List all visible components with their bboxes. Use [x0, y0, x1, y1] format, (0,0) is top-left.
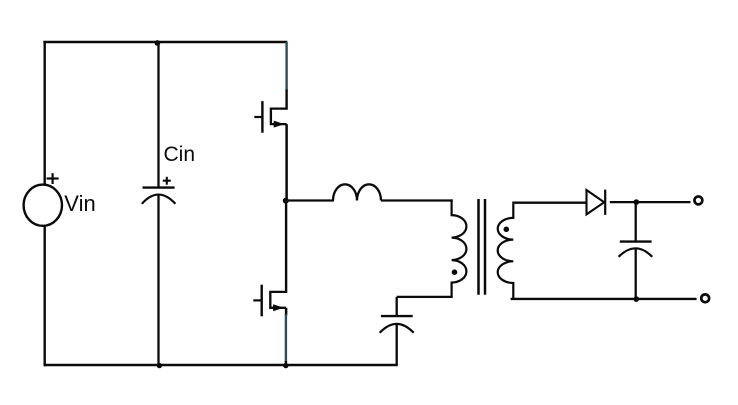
- inductor Lr: [333, 184, 381, 200]
- transistor Q2 (lower MOSFET): [253, 201, 286, 366]
- wire inductor to transformer: [381, 199, 453, 201]
- capacitor Cin: [142, 43, 176, 366]
- transistor Q1 (upper MOSFET): [254, 42, 286, 201]
- wire node to inductor: [286, 199, 334, 201]
- wire bottom rail: [44, 364, 398, 366]
- capacitor Cout: [619, 202, 653, 299]
- wire top rail: [43, 41, 287, 43]
- wire Vin top lead: [44, 42, 46, 185]
- junction dot switching node: [283, 198, 289, 204]
- terminal output minus: [701, 294, 709, 302]
- primary phase dot: [452, 269, 458, 275]
- transformer core: [479, 199, 486, 295]
- wire secondary bottom rail: [511, 298, 697, 300]
- junction dot bottom (Q2 source): [283, 363, 288, 368]
- wire diode to output plus: [610, 201, 691, 203]
- capacitor Cr (resonant): [380, 297, 414, 365]
- junction dot bottom (Cin): [157, 363, 162, 368]
- secondary phase dot: [504, 227, 510, 233]
- wire Vin bottom lead: [44, 226, 46, 366]
- voltage source Vin: [24, 173, 62, 226]
- wire secondary top to diode: [512, 202, 586, 204]
- wire primary bottom to Cr: [397, 296, 453, 298]
- junction dot top (Cin tap): [155, 40, 161, 46]
- junction dot Cout bottom: [634, 296, 640, 302]
- diode D1: [587, 190, 606, 215]
- terminal output plus: [694, 196, 702, 204]
- svg-text:Cin: Cin: [164, 143, 196, 166]
- svg-text:Vin: Vin: [64, 191, 95, 216]
- junction dot Cout top: [634, 199, 640, 205]
- transformer T1 secondary winding: [498, 204, 514, 299]
- transformer T1 primary winding: [452, 199, 467, 297]
